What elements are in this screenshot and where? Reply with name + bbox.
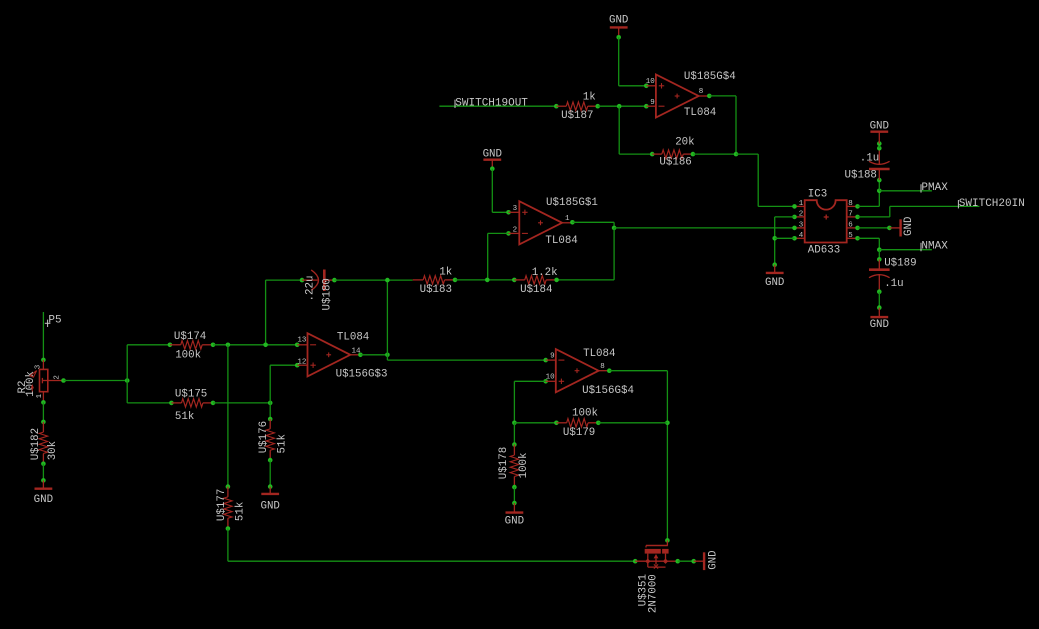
wire NMAX node to U$189 bbox=[878, 250, 880, 260]
ground GND (below U$182) bbox=[34, 480, 53, 505]
wire node H down to U$178 bbox=[513, 423, 515, 445]
svg-text:51k: 51k bbox=[277, 434, 289, 453]
junction pin 10 bbox=[543, 379, 548, 384]
junction pin 12 bbox=[295, 363, 300, 368]
junction gate node bbox=[633, 559, 638, 564]
svg-text:AD633: AD633 bbox=[808, 245, 840, 257]
junction U$180 left pin bbox=[300, 278, 305, 283]
wire node I to pin 4 bbox=[775, 237, 795, 239]
resistor U$174 bbox=[170, 331, 213, 362]
svg-text:SWITCH20IN: SWITCH20IN bbox=[959, 198, 1025, 210]
junction U$186 left pin bbox=[650, 152, 655, 157]
transistor U$351 (2N7000) bbox=[635, 540, 678, 613]
junction U$179 right pin bbox=[596, 421, 601, 426]
wire node down to U$175 bbox=[127, 381, 171, 403]
junction U$182 bottom pin bbox=[41, 461, 46, 466]
svg-text:U$189: U$189 bbox=[884, 258, 916, 270]
svg-text:.1u: .1u bbox=[860, 153, 879, 165]
resistor U$182 bbox=[30, 422, 59, 464]
svg-text:U$180: U$180 bbox=[322, 278, 334, 310]
junction U$180 right pin bbox=[332, 278, 337, 283]
junction node I bbox=[772, 236, 777, 241]
ground GND (below IC3) bbox=[765, 265, 784, 289]
svg-text:U$176: U$176 bbox=[258, 421, 270, 453]
junction U$184 left pin bbox=[512, 278, 517, 283]
ground GND (right of U$351, rotated) bbox=[694, 550, 720, 570]
svg-text:2: 2 bbox=[799, 211, 804, 219]
svg-text:30k: 30k bbox=[47, 441, 59, 460]
junction node B (to pin 2) bbox=[485, 278, 490, 283]
wire pin 10 net bbox=[514, 381, 545, 423]
op-amp U$156G$3 (TL084) bbox=[297, 331, 387, 380]
junction node F bbox=[385, 353, 390, 358]
junction node at 1k output bbox=[617, 104, 622, 109]
junction pin 9 bbox=[644, 104, 649, 109]
svg-text:GND: GND bbox=[708, 550, 720, 569]
junction pin 13 bbox=[295, 343, 300, 348]
resistor U$178 bbox=[498, 445, 530, 488]
svg-text:2N7000: 2N7000 bbox=[647, 574, 659, 613]
svg-text:7: 7 bbox=[848, 211, 853, 219]
svg-text:51k: 51k bbox=[235, 502, 247, 521]
wire pin 5 to NMAX node bbox=[858, 238, 880, 249]
svg-text:5: 5 bbox=[848, 232, 853, 240]
junction IC3 pin 5 bbox=[855, 236, 860, 241]
op-amp U$156G$4 (TL084) bbox=[546, 348, 634, 397]
junction node C bbox=[226, 343, 231, 348]
wire node to 20k resistor bbox=[619, 106, 652, 154]
wire cap row left segment bbox=[266, 279, 302, 281]
svg-text:GND: GND bbox=[870, 120, 889, 132]
net label NMAX bbox=[921, 241, 948, 253]
svg-text:12: 12 bbox=[297, 359, 306, 367]
wire node C down to U$177 bbox=[227, 345, 229, 487]
svg-text:1.2k: 1.2k bbox=[532, 267, 558, 279]
resistor U$175 bbox=[171, 388, 213, 423]
wire SWITCH19OUT net bbox=[439, 105, 556, 107]
svg-text:13: 13 bbox=[297, 336, 307, 344]
svg-text:100k: 100k bbox=[572, 408, 598, 420]
svg-text:9: 9 bbox=[650, 99, 655, 107]
junction node A bbox=[612, 226, 617, 231]
wire node up to U$174 bbox=[127, 345, 170, 381]
junction U$189 top pin bbox=[877, 257, 882, 262]
svg-text:TL084: TL084 bbox=[545, 235, 577, 247]
junction GND pin bbox=[512, 501, 517, 506]
wire node F to pin 9 of G$4 bbox=[387, 355, 545, 360]
junction pin 14 output bbox=[358, 353, 363, 358]
junction U$188 bottom pin bbox=[877, 178, 882, 183]
wire U$186 to node bbox=[693, 153, 736, 155]
svg-text:3: 3 bbox=[799, 222, 804, 230]
wire U$188 to GND bbox=[878, 144, 880, 149]
svg-text:GND: GND bbox=[505, 515, 524, 527]
svg-text:GND: GND bbox=[483, 148, 502, 160]
junction U$174 right pin bbox=[211, 343, 216, 348]
junction R2 pin 1 bbox=[41, 400, 46, 405]
resistor U$187 bbox=[556, 92, 597, 122]
wire pin 8 output to feedback node bbox=[709, 96, 736, 154]
svg-text:8: 8 bbox=[600, 363, 605, 371]
svg-text:U$187: U$187 bbox=[561, 110, 593, 122]
wire U$174 to pin 13 bbox=[213, 344, 297, 346]
wire U$180 to U$183 bbox=[334, 279, 412, 281]
resistor U$176 bbox=[258, 419, 289, 460]
junction U$188 top pin bbox=[877, 146, 882, 151]
svg-text:U$185G$1: U$185G$1 bbox=[546, 197, 598, 209]
svg-text:U$186: U$186 bbox=[659, 157, 691, 169]
svg-text:U$174: U$174 bbox=[174, 331, 206, 343]
wire R2 pin1 to U$182 bbox=[42, 402, 44, 422]
wire U$175 to node E bbox=[213, 402, 270, 404]
svg-text:NMAX: NMAX bbox=[921, 241, 948, 253]
junction U$176 bottom pin bbox=[268, 458, 273, 463]
svg-text:U$178: U$178 bbox=[498, 447, 510, 479]
junction divider node bbox=[125, 378, 130, 383]
junction source node bbox=[675, 559, 680, 564]
wire GND to pin 3 bbox=[492, 169, 508, 213]
ground GND (top, above U$185G$4) bbox=[609, 14, 628, 37]
svg-text:U$185G$4: U$185G$4 bbox=[684, 71, 736, 83]
svg-text:U$188: U$188 bbox=[845, 169, 877, 181]
wire U$176 to GND bbox=[269, 460, 271, 487]
wire R2 wiper to divider node bbox=[64, 380, 128, 382]
junction feedback node bbox=[734, 152, 739, 157]
net label SWITCH20IN bbox=[958, 198, 1024, 210]
wire node down to 1.2k row bbox=[557, 228, 615, 280]
junction cap row node bbox=[385, 278, 390, 283]
junction IC3 pin 4 bbox=[792, 236, 797, 241]
net label SWITCH19OUT bbox=[455, 97, 528, 109]
junction U$176 top pin bbox=[268, 417, 273, 422]
wire source to GND bbox=[678, 560, 694, 562]
svg-text:51k: 51k bbox=[175, 411, 194, 423]
wire pin 8 to drain bbox=[609, 371, 667, 541]
junction R2 pin 2 bbox=[61, 378, 66, 383]
junction U$178 top pin bbox=[512, 442, 517, 447]
junction node H bbox=[512, 421, 517, 426]
junction drain node bbox=[665, 538, 670, 543]
svg-text:SWITCH19OUT: SWITCH19OUT bbox=[455, 97, 528, 109]
svg-text:U$175: U$175 bbox=[175, 388, 207, 400]
junction U$175 left pin bbox=[169, 401, 174, 406]
wire PMAX node to U$188 bbox=[878, 180, 880, 191]
net label PMAX bbox=[921, 182, 948, 194]
svg-text:9: 9 bbox=[550, 352, 555, 360]
svg-text:GND: GND bbox=[34, 494, 53, 506]
wire pin 2 to node bbox=[488, 233, 509, 280]
svg-text:U$183: U$183 bbox=[420, 284, 452, 296]
wire U$183 to U$184 bbox=[455, 279, 514, 281]
wire node to IC3 pin 1 bbox=[736, 154, 795, 206]
junction U$178 bottom pin bbox=[512, 485, 517, 490]
junction pin 9 bbox=[543, 358, 548, 363]
svg-text:GND: GND bbox=[765, 277, 784, 289]
ground GND (below U$176) bbox=[260, 487, 279, 513]
junction node D bbox=[263, 343, 268, 348]
ground GND (below U$178) bbox=[505, 503, 524, 527]
svg-text:TL084: TL084 bbox=[337, 331, 369, 343]
junction pin 2 bbox=[506, 231, 511, 236]
capacitor U$188 (.1u) bbox=[845, 148, 890, 181]
svg-text:.1u: .1u bbox=[884, 278, 903, 290]
resistor U$179 bbox=[556, 408, 598, 439]
svg-text:P5: P5 bbox=[48, 315, 61, 327]
wire NMAX net bbox=[879, 249, 932, 251]
junction pin 8 output bbox=[607, 368, 612, 373]
wire PMAX net bbox=[879, 190, 932, 192]
svg-text:PMAX: PMAX bbox=[921, 182, 948, 194]
junction U$184 right pin bbox=[554, 278, 559, 283]
junction GND pin bbox=[490, 166, 495, 171]
junction U$187 right pin bbox=[595, 104, 600, 109]
ground GND (above U$188) bbox=[870, 120, 889, 143]
junction GND pin bbox=[887, 226, 892, 231]
junction node E bbox=[268, 401, 273, 406]
svg-text:3: 3 bbox=[34, 364, 42, 369]
svg-text:100k: 100k bbox=[518, 452, 530, 478]
svg-text:20k: 20k bbox=[675, 137, 694, 149]
multiplier IC3 (AD633) bbox=[795, 188, 858, 256]
svg-text:U$184: U$184 bbox=[520, 284, 552, 296]
junction U$189 bottom pin bbox=[877, 289, 882, 294]
resistor U$186 bbox=[652, 137, 694, 169]
junction U$183 right pin bbox=[453, 278, 458, 283]
resistor U$177 bbox=[216, 487, 247, 529]
ground GND (right of IC3 pin 6, rotated) bbox=[889, 217, 914, 237]
junction R2 pin 3 bbox=[41, 358, 46, 363]
svg-text:GND: GND bbox=[260, 500, 279, 512]
junction GND pin bbox=[616, 35, 621, 40]
junction U$187 left pin bbox=[554, 104, 559, 109]
svg-text:1: 1 bbox=[565, 215, 570, 223]
junction IC3 pin 7 bbox=[855, 215, 860, 220]
wire P5 net bbox=[42, 312, 44, 360]
wire node F up to cap row bbox=[386, 280, 388, 355]
svg-text:10: 10 bbox=[646, 78, 656, 86]
junction GND pin bbox=[877, 141, 882, 146]
junction U$182 top pin bbox=[41, 420, 46, 425]
ground GND (below U$189) bbox=[870, 308, 889, 332]
junction U$177 top pin bbox=[226, 484, 231, 489]
junction IC3 pin 2 bbox=[792, 215, 797, 220]
junction IC3 pin 3 bbox=[792, 226, 797, 231]
junction GND pin bbox=[772, 262, 777, 267]
wire bottom rail to MOSFET gate bbox=[228, 529, 635, 562]
junction NMAX node bbox=[877, 247, 882, 252]
junction GND pin bbox=[877, 305, 882, 310]
ground GND (above U$185G$1) bbox=[483, 148, 502, 168]
wire node H to U$179 bbox=[514, 422, 556, 424]
svg-text:8: 8 bbox=[699, 88, 704, 96]
wire U$189 to GND bbox=[878, 292, 880, 308]
junction U$174 left pin bbox=[168, 343, 173, 348]
wire U$179 to node G bbox=[598, 422, 667, 424]
junction U$186 right pin bbox=[691, 152, 696, 157]
junction pin 1 output bbox=[570, 220, 575, 225]
capacitor U$180 (.22u) bbox=[302, 270, 334, 311]
svg-text:100k: 100k bbox=[175, 350, 201, 362]
wire pin 1 to IC3 pin 3 node bbox=[572, 222, 614, 228]
wire cap row vertical to pin13 row bbox=[265, 280, 267, 345]
op-amp U$185G$4 (TL084) bbox=[646, 71, 736, 119]
svg-text:1: 1 bbox=[36, 393, 44, 398]
junction pin 3 bbox=[506, 210, 511, 215]
junction IC3 pin 1 bbox=[792, 204, 797, 209]
wire pin 6 to GND bbox=[858, 227, 890, 229]
svg-text:GND: GND bbox=[870, 319, 889, 331]
svg-text:U$182: U$182 bbox=[30, 428, 42, 460]
svg-text:.22u: .22u bbox=[304, 276, 316, 302]
resistor U$184 bbox=[514, 267, 557, 296]
wire SWITCH20IN net bbox=[858, 206, 980, 217]
svg-text:IC3: IC3 bbox=[808, 188, 827, 200]
junction feedback node G bbox=[665, 421, 670, 426]
resistor U$183 bbox=[413, 266, 455, 295]
junction IC3 pin 8 bbox=[855, 204, 860, 209]
junction pin 8 output bbox=[707, 94, 712, 99]
svg-text:8: 8 bbox=[848, 200, 853, 208]
wire pin 2 to pin 4 and GND bbox=[775, 217, 795, 265]
junction GND pin bbox=[268, 484, 273, 489]
wire U$178 to GND bbox=[513, 487, 515, 503]
junction U$179 left pin bbox=[554, 421, 559, 426]
svg-text:1: 1 bbox=[799, 200, 804, 208]
svg-text:U$177: U$177 bbox=[216, 489, 228, 521]
wire GND to op-amp pin 10 bbox=[619, 37, 647, 86]
wire pin 14 to node F bbox=[360, 354, 387, 356]
svg-text:10: 10 bbox=[546, 374, 556, 382]
junction pin 10 bbox=[644, 84, 649, 89]
svg-text:GND: GND bbox=[609, 14, 628, 26]
op-amp U$185G$1 (TL084) bbox=[509, 197, 598, 247]
wire U$187 to pin 9 bbox=[598, 105, 647, 107]
wire pin 12 net bbox=[270, 365, 297, 419]
svg-text:TL084: TL084 bbox=[583, 348, 615, 360]
junction U$175 right pin bbox=[211, 401, 216, 406]
svg-text:U$156G$4: U$156G$4 bbox=[582, 385, 634, 397]
junction U$177 bottom pin bbox=[226, 526, 231, 531]
svg-text:4: 4 bbox=[799, 232, 804, 240]
svg-text:2: 2 bbox=[513, 226, 518, 234]
junction GND pin bbox=[41, 478, 46, 483]
wire U$182 to GND bbox=[42, 464, 44, 481]
svg-text:GND: GND bbox=[903, 217, 915, 236]
junction GND pin bbox=[691, 559, 696, 564]
svg-text:2: 2 bbox=[54, 375, 62, 380]
svg-text:1k: 1k bbox=[583, 92, 596, 104]
svg-text:U$179: U$179 bbox=[563, 427, 595, 439]
svg-text:3: 3 bbox=[513, 205, 518, 213]
capacitor U$189 (.1u) bbox=[869, 258, 917, 292]
junction PMAX node bbox=[877, 189, 882, 194]
svg-text:1k: 1k bbox=[439, 266, 452, 278]
svg-text:TL084: TL084 bbox=[684, 107, 716, 119]
junction IC3 pin 6 bbox=[855, 226, 860, 231]
wire pin 8 to PMAX node bbox=[858, 191, 880, 207]
potentiometer R2 (100k) bbox=[17, 360, 64, 403]
wire node to IC3 pin 3 bbox=[614, 227, 794, 229]
svg-text:U$156G$3: U$156G$3 bbox=[336, 369, 388, 381]
net label P5 bbox=[45, 315, 62, 327]
svg-text:6: 6 bbox=[848, 222, 853, 230]
